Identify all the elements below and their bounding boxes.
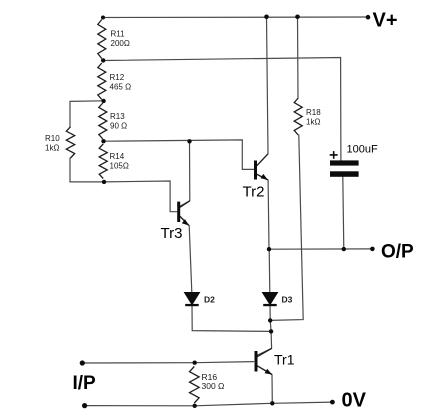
node O/P - Tr2 emitter junction <box>267 247 271 251</box>
wire Tr1 emitter down to 0V rail <box>271 375 273 404</box>
wire D3 cathode to node <box>270 304 271 331</box>
transistor Tr3 <box>180 201 190 226</box>
wire R13/R14 junction to Tr2 base <box>104 140 254 170</box>
wire R10 bottom to R14 bottom junction <box>70 158 104 182</box>
svg-text:90 Ω: 90 Ω <box>110 121 127 130</box>
svg-text:200Ω: 200Ω <box>111 39 130 48</box>
resistor R10 <box>66 127 74 158</box>
diode D2 <box>185 293 200 305</box>
node Tr3 collector tap <box>187 139 191 143</box>
wire node to Tr1 collector <box>257 331 271 355</box>
wire R18 bottom lead down to D3 cathode node <box>270 135 303 320</box>
svg-text:1kΩ: 1kΩ <box>45 143 59 152</box>
svg-text:100uF: 100uF <box>347 144 378 156</box>
svg-text:R18: R18 <box>306 108 321 117</box>
node 0V - R16 junction <box>193 404 197 408</box>
svg-text:105Ω: 105Ω <box>110 161 129 170</box>
wire R12/R13 junction to R10 top <box>70 101 104 127</box>
wire top V+ rail <box>103 16 368 19</box>
transistor Tr2 <box>257 154 268 180</box>
svg-text:Tr2: Tr2 <box>243 184 265 201</box>
node 0V - Tr1 emitter junction <box>270 401 274 405</box>
node O/P - capacitor junction <box>342 247 346 251</box>
capacitor 100uF <box>330 160 359 165</box>
node I/P top - R16 junction <box>193 361 197 365</box>
label R13 value <box>110 112 127 130</box>
wire Tr3 collector from node on Tr2-base wire <box>180 141 190 206</box>
svg-text:1kΩ: 1kΩ <box>306 117 320 126</box>
terminal I/P bottom <box>82 403 87 408</box>
svg-text:D3: D3 <box>282 295 293 305</box>
svg-text:465 Ω: 465 Ω <box>110 82 132 91</box>
svg-text:0V: 0V <box>342 390 367 412</box>
wire D2 cathode to D2/D3 node <box>192 304 271 331</box>
wire bottom 0V rail <box>85 402 333 406</box>
svg-text:R12: R12 <box>110 73 125 82</box>
resistor R12 <box>98 63 106 100</box>
resistor R11 <box>98 20 106 59</box>
svg-text:R14: R14 <box>110 152 125 161</box>
wire I/P top to Tr1 base <box>82 362 253 363</box>
svg-text:O/P: O/P <box>381 241 414 262</box>
svg-text:D2: D2 <box>204 295 215 305</box>
terminal V+ <box>366 15 371 20</box>
svg-text:300 Ω: 300 Ω <box>202 381 225 391</box>
resistor R18 <box>294 98 302 135</box>
terminal 0V <box>330 400 335 405</box>
node D2/D3 - Tr1 collector junction <box>269 329 273 333</box>
svg-text:I/P: I/P <box>73 373 97 394</box>
resistor R14 <box>99 144 107 179</box>
resistor R13 <box>99 103 107 139</box>
label R10 value <box>45 134 60 152</box>
wire R18 top lead from rail <box>297 17 300 99</box>
wire Tr2 emitter down to O/P rail <box>267 180 270 249</box>
node R14 bottom junction <box>102 180 106 184</box>
wire Tr3 base from R14 bottom node <box>104 181 177 212</box>
terminal O/P <box>370 247 375 252</box>
svg-text:R11: R11 <box>111 30 126 39</box>
wire O/P node down to D3 anode <box>268 249 271 292</box>
wire R11/R12 junction to capacitor top <box>103 58 341 161</box>
wire capacitor bottom to O/P rail <box>343 177 344 249</box>
capacitor + polarity mark <box>330 151 338 159</box>
node R13/R14 junction <box>101 139 105 143</box>
svg-text:R13: R13 <box>110 112 125 121</box>
svg-text:Tr3: Tr3 <box>161 225 183 242</box>
svg-text:R10: R10 <box>45 134 60 143</box>
node R12/R13 junction <box>101 99 105 103</box>
label R11 value <box>111 30 130 48</box>
label R14 value <box>110 152 129 170</box>
node rail-R11 junction <box>101 16 105 20</box>
wire O/P rail <box>269 248 372 250</box>
wire Tr2 collector to top rail <box>267 17 269 154</box>
node rail-R18 junction <box>295 14 300 19</box>
node R11/R12 junction <box>101 58 105 62</box>
resistor R16 <box>190 367 200 404</box>
terminal I/P top <box>80 360 85 365</box>
label R16 value <box>202 372 225 391</box>
svg-text:Tr1: Tr1 <box>274 352 295 368</box>
node rail-Tr2 collector junction <box>264 14 269 19</box>
diode D3 <box>263 293 278 305</box>
svg-text:V+: V+ <box>373 10 398 32</box>
node D3 cathode - R18 junction <box>268 318 272 322</box>
label R12 value <box>110 73 132 91</box>
label R18 value <box>306 108 321 126</box>
wire Tr3 emitter down to D2 anode <box>189 226 192 292</box>
transistor Tr1 <box>257 348 272 374</box>
